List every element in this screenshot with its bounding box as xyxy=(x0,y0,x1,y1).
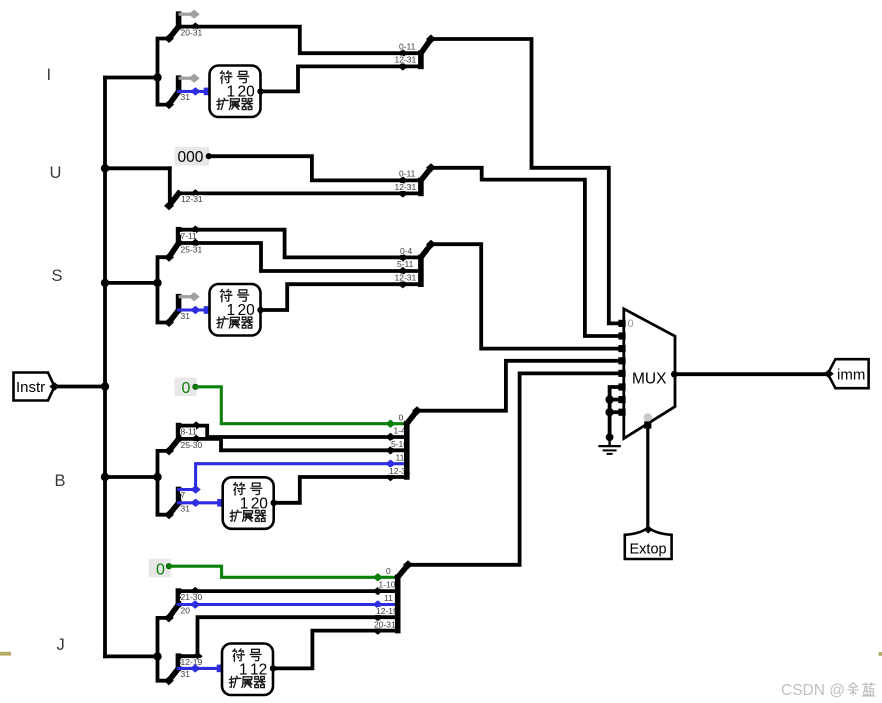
svg-text:S: S xyxy=(52,267,63,285)
wire S immediate to MUX input 2 xyxy=(431,244,619,348)
wire Instr to trunk xyxy=(55,385,106,389)
wire xyxy=(179,308,206,311)
mux input pin 7 xyxy=(618,409,625,416)
node ground bus 2 xyxy=(605,408,613,416)
wire I bits20-31 to joiner leg 0-11 xyxy=(195,27,421,54)
wire U3 output to joiner leg 12-31 xyxy=(274,477,407,503)
wire U immediate to MUX input 1 xyxy=(431,168,619,336)
wire B row xyxy=(105,475,158,479)
mux input pin 5 xyxy=(618,383,625,390)
splitter S upper (7-11,25-31) xyxy=(158,230,179,283)
svg-text:0-11: 0-11 xyxy=(399,42,416,52)
wire S row xyxy=(105,281,158,285)
svg-text:31: 31 xyxy=(181,92,191,102)
svg-text:U: U xyxy=(50,164,62,182)
wire xyxy=(179,424,197,428)
splitter I lower (31) xyxy=(158,78,179,110)
joiner U (0-11,12-31) xyxy=(421,163,436,193)
svg-text:11: 11 xyxy=(384,593,393,603)
sign extender U3 (B row) 1 to 20 xyxy=(223,477,274,529)
wire constant 0 to J joiner leg 0 xyxy=(169,566,398,577)
wire B bits25-30 to joiner leg 5-10 xyxy=(196,439,407,450)
input pin Extop xyxy=(625,526,672,560)
svg-text:20-31: 20-31 xyxy=(374,620,396,630)
svg-text:12-31: 12-31 xyxy=(395,55,417,65)
wire xyxy=(178,589,397,593)
wire S bits7-11 to joiner leg 0-4 xyxy=(195,230,421,258)
pin input of sign extender U2 xyxy=(204,306,212,314)
wire U4 output to joiner leg 20-31 xyxy=(273,631,398,669)
svg-text:imm: imm xyxy=(837,367,865,384)
svg-text:31: 31 xyxy=(181,504,191,514)
pin input of sign extender U4 xyxy=(217,665,225,673)
svg-text:0: 0 xyxy=(628,318,634,330)
splitter S lower (31) xyxy=(158,283,179,327)
pin output of constant 000 xyxy=(206,153,212,159)
wire J immediate to MUX input 4 xyxy=(408,373,619,564)
wire unused mux inputs to ground xyxy=(610,387,619,437)
watermark CSDN xyxy=(781,682,875,699)
node B split xyxy=(153,473,161,481)
mux select disabled dot xyxy=(644,413,652,421)
mux input pin 6 xyxy=(618,396,625,403)
mux input pin 3 xyxy=(618,357,625,364)
wire U row xyxy=(105,166,170,170)
svg-text:20: 20 xyxy=(181,605,191,615)
svg-text:1: 1 xyxy=(227,302,236,319)
multiplexer MUX xyxy=(624,309,675,439)
wire B bits8-11 to joiner leg 1-4 xyxy=(196,426,407,437)
constant 000 xyxy=(175,147,212,166)
svg-text:1: 1 xyxy=(240,495,249,512)
svg-text:5-11: 5-11 xyxy=(397,259,414,269)
svg-text:11: 11 xyxy=(396,452,405,462)
splitter I upper (20-31) xyxy=(158,14,179,77)
sign extender U2 (S row) 1 to 20 xyxy=(210,284,261,336)
wire MUX output to imm xyxy=(674,372,827,376)
output pin imm xyxy=(823,359,868,388)
ground xyxy=(598,437,620,454)
mux input pin 0 xyxy=(618,320,625,327)
node Instr junction xyxy=(101,382,109,390)
node S junction xyxy=(101,279,109,287)
wire xyxy=(179,241,196,245)
svg-text:MUX: MUX xyxy=(632,371,667,388)
joiner J (0,1-10,11,12-19,20-31) xyxy=(398,560,413,630)
wire stub mux input 6 xyxy=(610,398,619,402)
pin output of sign extender U4 xyxy=(270,665,276,671)
sign extender U1 (I row) 1 to 20 xyxy=(210,66,261,118)
svg-text:21-30: 21-30 xyxy=(181,592,203,602)
input pin Instr xyxy=(14,373,60,401)
unused leg of splitter I lower xyxy=(179,74,200,83)
svg-text:0: 0 xyxy=(386,566,391,576)
selection artifact right edge xyxy=(879,652,882,656)
wire S bits25-31 to joiner leg 5-11 xyxy=(195,243,421,271)
svg-text:12-31: 12-31 xyxy=(395,182,417,192)
mux select pin xyxy=(644,421,651,428)
svg-text:CSDN @: CSDN @ xyxy=(781,682,845,699)
splitter U (12-31) xyxy=(164,168,179,210)
pin output of sign extender U2 xyxy=(257,307,263,313)
wire xyxy=(178,667,219,670)
node U junction xyxy=(101,164,109,172)
joiner I (0-11,12-31) xyxy=(421,35,436,67)
node I split xyxy=(153,73,161,81)
svg-text:12-31: 12-31 xyxy=(181,194,203,204)
svg-text:8-11: 8-11 xyxy=(181,427,198,437)
svg-text:1: 1 xyxy=(239,662,248,679)
node ground stem xyxy=(606,433,614,441)
wire I immediate to MUX input 0 xyxy=(431,39,619,323)
wire xyxy=(179,464,407,490)
wire xyxy=(179,90,206,93)
unused leg 0-19 of splitter I upper xyxy=(179,10,200,19)
svg-text:0: 0 xyxy=(399,412,404,422)
svg-text:0: 0 xyxy=(182,380,191,397)
wire constant 0 to B joiner leg 0 xyxy=(195,387,406,424)
wire xyxy=(179,228,196,232)
splitter J upper (21-30,20) xyxy=(158,591,179,656)
mux input pin 1 xyxy=(618,332,625,339)
wire stub mux input 7 xyxy=(610,410,619,414)
svg-text:000: 000 xyxy=(178,149,204,166)
svg-text:Extop: Extop xyxy=(630,542,667,558)
wire J row xyxy=(105,655,158,659)
joiner S (0-4,5-11,12-31) xyxy=(421,240,436,285)
splitter B upper (8-11,25-30) xyxy=(158,426,179,477)
pin output of sign extender U1 xyxy=(257,88,263,94)
wire xyxy=(178,603,397,606)
node B junction xyxy=(101,473,109,481)
constant 0 (B row) xyxy=(175,378,199,398)
trunk wire Instr vertical xyxy=(103,78,107,657)
svg-text:1: 1 xyxy=(227,84,236,101)
mux input pin 2 xyxy=(618,345,625,352)
pin output of constant 0 (B) xyxy=(192,384,198,390)
svg-text:0-4: 0-4 xyxy=(400,246,413,256)
svg-text:31: 31 xyxy=(181,669,191,679)
wire xyxy=(179,501,220,504)
pin output of MUX xyxy=(671,371,678,378)
svg-text:20-31: 20-31 xyxy=(181,28,203,38)
wire xyxy=(179,25,196,29)
svg-text:0-11: 0-11 xyxy=(399,169,416,179)
node S split xyxy=(153,279,161,287)
wire xyxy=(179,437,197,441)
node J split xyxy=(153,652,161,660)
sign extender U4 (J row) 1 to 12 xyxy=(222,644,273,696)
svg-text:12-19: 12-19 xyxy=(181,657,203,667)
wire constant 000 to joiner leg 0-11 xyxy=(209,156,421,180)
wire Extop to mux select xyxy=(646,425,649,529)
svg-text:25-31: 25-31 xyxy=(181,244,203,254)
selection artifact left edge xyxy=(0,652,11,656)
wire B immediate to MUX input 3 xyxy=(417,361,619,411)
svg-text:0: 0 xyxy=(156,562,165,579)
wire xyxy=(179,191,421,195)
svg-text:12-31: 12-31 xyxy=(395,273,417,283)
mux input pin 4 xyxy=(618,370,625,377)
svg-text:Instr: Instr xyxy=(16,379,45,396)
wire xyxy=(178,617,397,656)
pin input of sign extender U1 xyxy=(204,88,212,96)
svg-text:B: B xyxy=(55,472,66,490)
joiner B (0,1-4,5-10,11,12-31) xyxy=(407,406,422,477)
pin input of sign extender U3 xyxy=(217,499,225,507)
svg-text:7: 7 xyxy=(181,490,186,500)
pin output of constant 0 (J) xyxy=(166,563,172,569)
svg-text:J: J xyxy=(57,636,65,654)
splitter J lower (12-19,31) xyxy=(158,656,179,685)
svg-text:31: 31 xyxy=(181,311,191,321)
splitter B lower (7,31) xyxy=(158,477,179,519)
pin output of sign extender U3 xyxy=(271,500,277,506)
wire U1 output to joiner leg 12-31 xyxy=(261,66,421,91)
svg-text:25-30: 25-30 xyxy=(181,440,203,450)
wire U2 output to joiner leg 12-31 xyxy=(261,284,421,310)
svg-text:12-19: 12-19 xyxy=(376,606,398,616)
svg-text:1-10: 1-10 xyxy=(379,579,396,589)
svg-text:I: I xyxy=(47,66,52,84)
constant 0 (J row) xyxy=(149,559,172,579)
unused leg of splitter S lower xyxy=(179,292,200,301)
node ground bus 1 xyxy=(605,395,613,403)
wire I row xyxy=(105,76,158,80)
